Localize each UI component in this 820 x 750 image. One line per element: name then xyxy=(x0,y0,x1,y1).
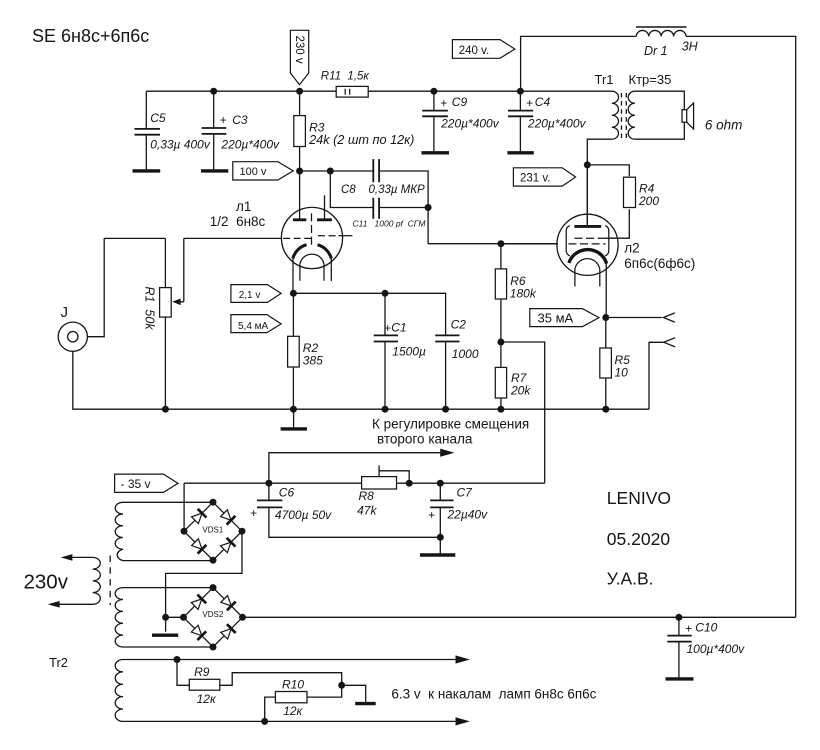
svg-text:220µ*400v: 220µ*400v xyxy=(220,138,280,152)
svg-text:C8 0,33µ МКР: C8 0,33µ МКР xyxy=(341,184,425,196)
svg-text:C6: C6 xyxy=(279,486,295,500)
svg-text:35 мА: 35 мА xyxy=(538,310,574,325)
svg-text:LENIVO: LENIVO xyxy=(607,488,671,508)
svg-text:л1: л1 xyxy=(236,199,251,214)
svg-text:C7: C7 xyxy=(457,486,474,500)
svg-text:R11 1,5к: R11 1,5к xyxy=(321,70,370,82)
svg-text:R1 50k: R1 50k xyxy=(142,287,156,331)
svg-text:230 v: 230 v xyxy=(293,36,305,64)
svg-text:VDS2: VDS2 xyxy=(202,610,223,619)
svg-text:R9: R9 xyxy=(194,665,210,679)
svg-text:5,4 мА: 5,4 мА xyxy=(238,321,269,332)
svg-text:4700µ 50v: 4700µ 50v xyxy=(275,508,332,522)
svg-text:100 v: 100 v xyxy=(240,166,267,178)
svg-text:240 v.: 240 v. xyxy=(459,45,489,57)
svg-text:J: J xyxy=(61,304,69,321)
svg-text:Dr 1: Dr 1 xyxy=(644,44,668,58)
svg-text:C1: C1 xyxy=(391,320,406,334)
svg-text:10: 10 xyxy=(615,366,629,380)
svg-text:л2: л2 xyxy=(624,241,639,256)
svg-text:R8: R8 xyxy=(359,489,375,503)
svg-text:К регулировке смещения: К регулировке смещения xyxy=(372,416,529,431)
svg-text:1500µ: 1500µ xyxy=(392,345,426,359)
svg-text:+: + xyxy=(526,96,533,110)
svg-text:SE 6н8с+6п6с: SE 6н8с+6п6с xyxy=(32,26,149,46)
svg-text:6п6с(6ф6с): 6п6с(6ф6с) xyxy=(624,256,695,271)
svg-text:05.2020: 05.2020 xyxy=(607,529,671,549)
svg-text:1/2 6н8с: 1/2 6н8с xyxy=(210,214,266,229)
svg-text:230v: 230v xyxy=(24,570,69,593)
svg-text:1000: 1000 xyxy=(452,347,479,361)
svg-text:C5: C5 xyxy=(150,111,166,125)
svg-text:385: 385 xyxy=(303,354,323,368)
svg-text:6 ohm: 6 ohm xyxy=(705,118,743,133)
svg-text:0,33µ 400v: 0,33µ 400v xyxy=(150,138,211,152)
svg-text:180k: 180k xyxy=(510,287,537,301)
svg-text:231 v.: 231 v. xyxy=(520,172,550,184)
svg-text:У.А.В.: У.А.В. xyxy=(607,569,654,589)
svg-text:+: + xyxy=(220,113,227,127)
svg-text:C3: C3 xyxy=(232,113,248,127)
svg-text:- 35 v: - 35 v xyxy=(121,477,151,491)
svg-text:+: + xyxy=(685,622,692,636)
svg-text:220µ*400v: 220µ*400v xyxy=(527,117,587,131)
svg-text:6.3 v к накалам ламп 6н8с 6п: 6.3 v к накалам ламп 6н8с 6п6с xyxy=(391,686,596,701)
svg-text:C2: C2 xyxy=(451,318,467,332)
svg-text:20k: 20k xyxy=(510,384,531,398)
svg-text:C10: C10 xyxy=(695,621,717,635)
svg-text:200: 200 xyxy=(638,194,659,208)
svg-text:22µ40v: 22µ40v xyxy=(447,507,489,521)
svg-text:47k: 47k xyxy=(357,503,377,517)
svg-text:VDS1: VDS1 xyxy=(202,525,223,534)
svg-text:+: + xyxy=(250,506,257,520)
svg-text:3H: 3H xyxy=(682,40,699,54)
svg-text:Ктр=35: Ктр=35 xyxy=(629,72,672,87)
svg-text:12к: 12к xyxy=(197,692,217,706)
svg-text:12к: 12к xyxy=(283,704,303,718)
svg-text:100µ*400v: 100µ*400v xyxy=(687,642,746,656)
svg-text:C11 1000 pf СГМ: C11 1000 pf СГМ xyxy=(353,219,427,229)
svg-text:+: + xyxy=(440,96,447,110)
svg-text:2,1 v: 2,1 v xyxy=(239,290,261,301)
svg-text:второго канала: второго канала xyxy=(377,432,473,447)
svg-text:+: + xyxy=(384,321,391,335)
svg-text:220µ*400v: 220µ*400v xyxy=(440,117,500,131)
svg-text:C9: C9 xyxy=(452,95,468,109)
svg-text:R10: R10 xyxy=(282,677,304,691)
svg-text:+: + xyxy=(428,508,435,522)
svg-text:C4: C4 xyxy=(535,95,551,109)
svg-text:Tr1: Tr1 xyxy=(595,72,614,87)
svg-text:24k (2 шт по 12к): 24k (2 шт по 12к) xyxy=(308,133,414,147)
svg-text:Tr2: Tr2 xyxy=(49,655,68,670)
